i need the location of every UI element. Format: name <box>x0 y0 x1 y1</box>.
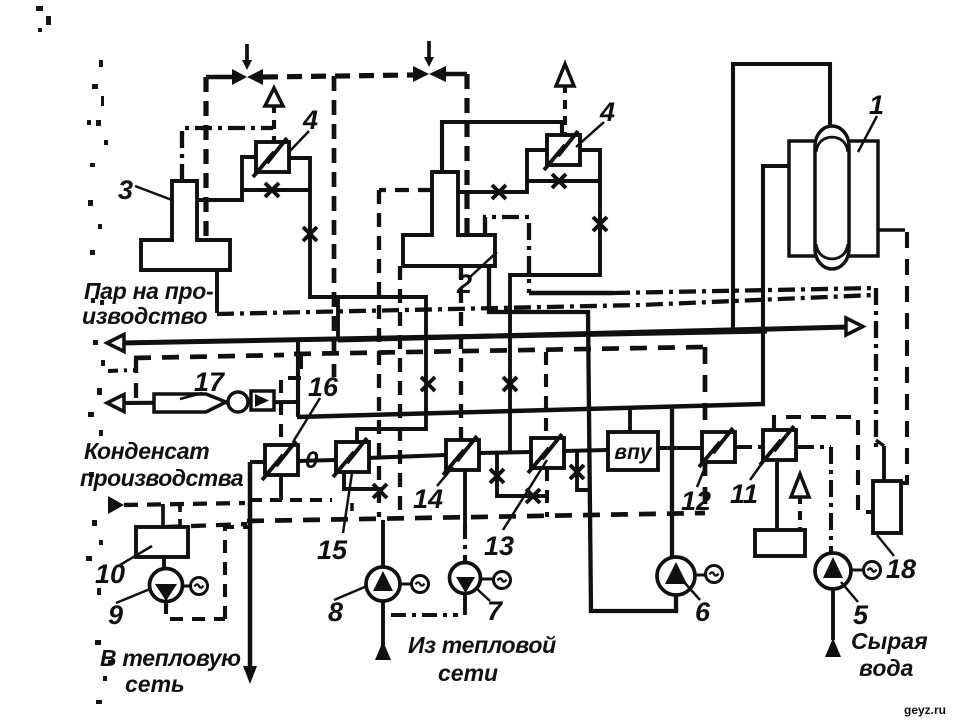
svg-text:1: 1 <box>869 90 884 120</box>
svg-text:3: 3 <box>118 175 133 205</box>
svg-text:18: 18 <box>886 554 916 584</box>
svg-text:Пар на про-: Пар на про- <box>84 278 213 304</box>
svg-text:6: 6 <box>695 597 711 627</box>
svg-text:geyz.ru: geyz.ru <box>904 703 946 717</box>
svg-text:Сырая: Сырая <box>851 628 928 654</box>
svg-text:5: 5 <box>853 600 869 630</box>
svg-text:Из тепловой: Из тепловой <box>408 632 556 658</box>
svg-text:9: 9 <box>108 600 123 630</box>
svg-text:4: 4 <box>302 105 318 135</box>
svg-text:2: 2 <box>456 269 472 299</box>
svg-text:0: 0 <box>305 447 319 474</box>
svg-text:сеть: сеть <box>125 671 185 697</box>
svg-text:13: 13 <box>484 531 514 561</box>
svg-text:4: 4 <box>599 97 615 127</box>
svg-text:8: 8 <box>328 597 343 627</box>
svg-text:сети: сети <box>438 660 498 686</box>
svg-text:17: 17 <box>194 367 226 397</box>
svg-text:15: 15 <box>317 535 348 565</box>
svg-text:14: 14 <box>413 484 443 514</box>
svg-text:12: 12 <box>681 486 711 516</box>
svg-text:16: 16 <box>308 372 339 402</box>
svg-text:В тепловую: В тепловую <box>100 645 241 671</box>
svg-text:Конденсат: Конденсат <box>84 438 209 464</box>
svg-text:11: 11 <box>730 479 758 509</box>
svg-text:изводство: изводство <box>82 303 208 329</box>
svg-text:вода: вода <box>859 655 914 681</box>
svg-text:впу: впу <box>614 441 653 464</box>
svg-text:производства: производства <box>80 465 244 491</box>
